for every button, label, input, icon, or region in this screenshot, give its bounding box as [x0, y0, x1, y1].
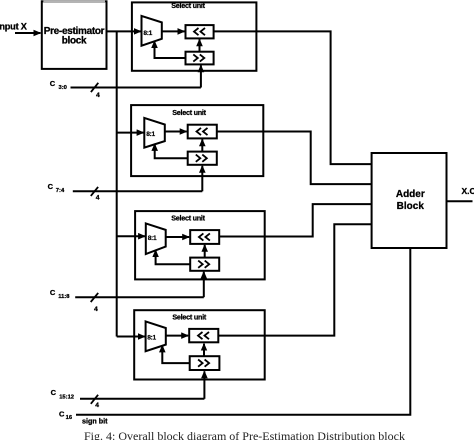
wire: &gt;&gt; feedback to mux 3: [156, 250, 191, 264]
wire: mux 4 to &lt;&lt;: [166, 335, 188, 337]
shifter &gt;&gt; (unit 1): [186, 52, 214, 65]
svg-text:8:1: 8:1: [146, 131, 155, 138]
bus label C 11:8: [50, 288, 70, 300]
wire: C15:12 riser into &gt;&gt; (unit 4): [203, 371, 205, 399]
svg-text:8:1: 8:1: [143, 30, 152, 37]
block: Adder: [372, 153, 447, 248]
wire: mux 3 to &lt;&lt;: [166, 236, 190, 238]
wire: input arrow into mux 4: [117, 336, 145, 338]
svg-text:C: C: [50, 288, 56, 297]
svg-text:sign bit: sign bit: [82, 416, 108, 425]
select unit 3 box: [135, 211, 265, 279]
svg-text:X.C: X.C: [462, 186, 474, 196]
bus label C 7:4: [48, 182, 65, 194]
wire: &gt;&gt; up to &lt;&lt; (unit 1): [199, 39, 201, 51]
svg-text:4: 4: [95, 402, 99, 409]
shifter &lt;&lt; (unit 3): [190, 230, 219, 244]
wire: unit 4 output to adder input 4: [218, 224, 371, 335]
wire: C11:8 riser into &gt;&gt; (unit 3): [203, 272, 205, 298]
wire: &gt;&gt; feedback to mux 2: [155, 144, 188, 158]
shifter &gt;&gt; (unit 2): [188, 152, 217, 165]
svg-text:8:1: 8:1: [148, 235, 157, 242]
mux 8:1 (unit 3): [146, 223, 166, 254]
wire: input distribution vertical: [116, 31, 118, 336]
wire: pre-estimator output to mux 1: [107, 30, 141, 32]
svg-text:C: C: [50, 79, 56, 88]
svg-text:Select unit: Select unit: [172, 313, 206, 322]
svg-text:block: block: [62, 36, 87, 47]
svg-text:8:1: 8:1: [147, 334, 156, 341]
wire: unit 2 output to adder input 2: [217, 132, 372, 185]
select unit 2 box: [131, 105, 263, 176]
wire: input arrow into mux 2: [117, 132, 144, 134]
bus label C 3:0: [50, 79, 67, 91]
svg-text:3:0: 3:0: [59, 85, 67, 91]
svg-text:11:8: 11:8: [58, 294, 70, 300]
shifter &lt;&lt; (unit 1): [186, 25, 214, 38]
bus C7:4 line with width-4 slash: [73, 187, 203, 202]
wire: C3:0 riser into &gt;&gt; (unit 1): [200, 65, 202, 87]
wire: C16 sign bit to adder bottom: [76, 248, 410, 415]
wire: unit 3 output to adder input 3: [219, 204, 371, 236]
svg-text:4: 4: [94, 306, 98, 313]
wire: unit 1 output to adder input 1: [214, 31, 372, 164]
svg-text:4: 4: [96, 195, 100, 202]
svg-text:C: C: [51, 388, 57, 397]
bus label C 16 sign bit: [59, 410, 108, 426]
svg-text:Fig. 4: Overall block diagram: Fig. 4: Overall block diagram of Pre-Est…: [84, 429, 405, 440]
svg-text:Adder: Adder: [396, 189, 425, 200]
wire: &gt;&gt; feedback to mux 1: [155, 41, 186, 58]
mux 8:1 (unit 4): [146, 321, 166, 351]
wire: mux 1 to &lt;&lt;: [162, 30, 185, 32]
wire: C7:4 riser into &gt;&gt; (unit 2): [201, 166, 203, 192]
svg-text:Select unit: Select unit: [171, 1, 205, 10]
shifter &lt;&lt; (unit 4): [189, 329, 218, 342]
mux 8:1 (unit 2): [144, 118, 165, 148]
svg-text:7:4: 7:4: [56, 188, 65, 194]
wire: &gt;&gt; feedback to mux 4: [162, 345, 189, 363]
wire: adder output X.C: [447, 200, 473, 202]
svg-text:Input X: Input X: [0, 22, 28, 32]
svg-text:15:12: 15:12: [59, 394, 74, 400]
wire: &gt;&gt; up to &lt;&lt; (unit 2): [201, 139, 203, 151]
bus C15:12 line with width-4 slash: [80, 395, 204, 409]
shifter &gt;&gt; (unit 4): [190, 356, 220, 370]
wire: input arrow into mux 3: [117, 235, 145, 237]
wire: &gt;&gt; up to &lt;&lt; (unit 4): [203, 344, 205, 357]
svg-text:4: 4: [96, 92, 100, 99]
wire: mux 2 to &lt;&lt;: [165, 131, 187, 133]
svg-text:Select unit: Select unit: [172, 108, 206, 117]
block: Pre-estimator: [42, 1, 107, 69]
bus C11:8 line with width-4 slash: [75, 293, 204, 313]
wire: &gt;&gt; up to &lt;&lt; (unit 3): [204, 245, 206, 258]
shifter &lt;&lt; (unit 2): [188, 125, 217, 139]
select unit 4 box: [134, 310, 265, 379]
bus label C 15:12: [51, 388, 74, 400]
svg-text:C: C: [48, 182, 54, 191]
wire: input X arrow into pre-estimator: [15, 32, 41, 34]
shifter &gt;&gt; (unit 3): [190, 258, 219, 271]
svg-text:C: C: [59, 410, 65, 419]
bus C3:0 line with width-4 slash: [71, 83, 201, 99]
svg-text:Block: Block: [397, 201, 425, 212]
svg-text:16: 16: [66, 415, 73, 421]
mux 8:1 (unit 1): [142, 16, 162, 46]
svg-text:Select unit: Select unit: [171, 214, 205, 223]
select unit 1 box: [132, 1, 257, 71]
